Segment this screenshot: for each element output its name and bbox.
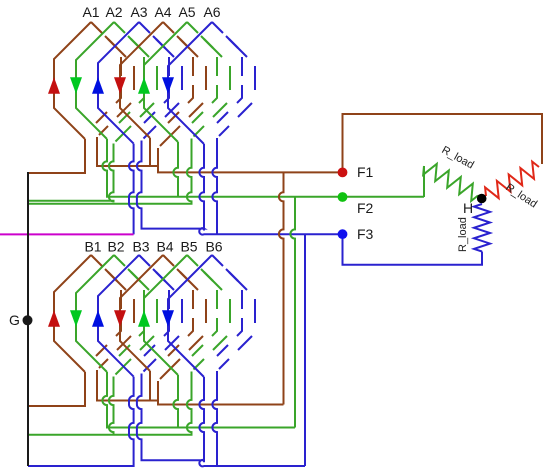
coil B2 front side (solid) — [76, 255, 114, 372]
current arrow A2 — [70, 77, 82, 94]
wire A3 lead + phase-3 bus to F3 (stepped) — [137, 141, 343, 235]
coil A6 back side (dashed) — [219, 39, 255, 136]
wire B6 lead to blue bus — [199, 377, 204, 462]
svg-text:F3: F3 — [357, 226, 374, 242]
wire B4 lead join red bus — [157, 381, 159, 401]
svg-text:R_load: R_load — [440, 144, 476, 171]
wire riser F2 net down — [290, 197, 295, 428]
coil A3 back side (dashed) — [144, 39, 183, 139]
resistor R_load red — [485, 162, 539, 199]
coil B2 second-turn back arc (dashed) — [119, 269, 144, 356]
coil B3 second-turn back arc (dashed) — [144, 269, 169, 356]
svg-text:A4: A4 — [154, 4, 171, 20]
wire B3 lead 2 + blue bus to riser (stepped) — [137, 374, 305, 467]
coil A2 back side (dashed) — [116, 39, 158, 142]
wire B5 lead to neutral return — [28, 372, 192, 435]
svg-text:F2: F2 — [357, 200, 374, 216]
current arrow B5 — [138, 310, 150, 327]
wire B2 lead join neutral return — [109, 377, 114, 435]
coil B1 back side (dashed) — [99, 272, 134, 368]
svg-text:A5: A5 — [178, 4, 195, 20]
coil A5 second-turn back arc (dashed) — [192, 36, 217, 123]
svg-text:H: H — [463, 200, 473, 216]
wire B2 lead + green bus to riser — [102, 372, 295, 428]
wire riser F1 net down — [279, 172, 284, 404]
coil A2 front side (solid) — [76, 22, 114, 139]
coil B4 peak-right solid stub — [163, 255, 174, 266]
current arrow A6 — [162, 77, 174, 94]
resistor R_load blue — [474, 204, 490, 252]
svg-text:B2: B2 — [107, 239, 124, 255]
wire green resistor to H node — [478, 196, 482, 199]
coil A2 second-turn back arc (dashed) — [119, 36, 144, 123]
svg-text:B6: B6 — [205, 239, 222, 255]
current arrow B1 — [48, 310, 60, 327]
current arrow B3 — [92, 310, 104, 327]
node G dot — [23, 315, 33, 325]
svg-text:B1: B1 — [84, 239, 101, 255]
wire A5 lead to neutral return — [28, 139, 192, 204]
coil B1 second-turn back arc (dashed) — [96, 269, 121, 356]
coil A5 peak-right solid stub — [187, 22, 198, 33]
coil A1 second-turn back arc (dashed) — [96, 36, 121, 123]
coil B6 second-turn back arc (dashed) — [217, 269, 242, 356]
current arrow B2 — [70, 310, 82, 327]
current arrow A4 — [114, 77, 126, 94]
svg-text:A6: A6 — [203, 4, 220, 20]
coil A6 second-turn back arc (dashed) — [217, 36, 242, 123]
coil B2 back side (dashed) — [116, 272, 158, 375]
svg-text:F1: F1 — [357, 164, 374, 180]
wire A2 lead + phase-2 bus to F2 — [102, 139, 424, 197]
coil B5 peak-right solid stub — [187, 255, 198, 266]
wire A1 lead + phase-1 bus to F1 (stepped) — [97, 137, 343, 172]
coil B3 front side (solid) — [98, 255, 139, 377]
svg-text:G: G — [9, 312, 20, 328]
coil B3 back side (dashed) — [144, 272, 183, 372]
coil A6 front side (solid) — [168, 22, 212, 144]
node F1 dot — [338, 168, 348, 178]
coil B1 front side (solid) — [54, 255, 91, 372]
wire B5 lead join green bus — [173, 375, 178, 428]
node F3 dot — [338, 229, 348, 239]
coil A3 front side (solid) — [98, 22, 139, 144]
wire B1 lead to neutral link — [28, 372, 85, 406]
svg-text:R_load: R_load — [457, 217, 469, 252]
coil B5 second-turn back arc (dashed) — [192, 269, 217, 356]
resistor R_load green — [423, 164, 478, 201]
coil A4 back side (dashed) — [160, 39, 206, 146]
svg-text:A2: A2 — [105, 4, 122, 20]
coil A5 front side (solid) — [144, 22, 187, 142]
coil B2 peak-right solid stub — [114, 255, 125, 266]
wire B4 lead join jumper — [149, 371, 151, 401]
current arrow B4 — [114, 310, 126, 327]
coil B4 front side (solid) — [120, 255, 163, 371]
wire F1 to load loop — [343, 114, 543, 172]
coil A4 peak-right solid stub — [163, 22, 174, 33]
coil A3 second-turn back arc (dashed) — [144, 36, 169, 123]
wire B1 lead + red bus to riser (stepped) — [97, 370, 284, 405]
svg-text:B5: B5 — [180, 239, 197, 255]
coil B4 back side (dashed) — [160, 272, 206, 379]
coil A1 peak-right solid stub — [91, 22, 102, 33]
coil A1 front side (solid) — [54, 22, 91, 139]
coil A6 peak-right solid stub — [212, 22, 223, 33]
wire A6 lead 2 join F3 bus — [212, 138, 217, 234]
coil B6 peak-right solid stub — [212, 255, 223, 266]
wire A1 lead to neutral link — [28, 139, 85, 173]
wire A3 lead to magenta link — [129, 144, 134, 235]
node F2 dot — [338, 192, 348, 202]
coil A1 back side (dashed) — [99, 39, 134, 135]
svg-text:B4: B4 — [156, 239, 173, 255]
coil A2 peak-right solid stub — [114, 22, 125, 33]
wire blue resistor bottom to F3 — [343, 239, 483, 265]
current arrow A3 — [92, 77, 104, 94]
wire B6 lead 2 to blue bus — [212, 371, 217, 466]
coil B4 second-turn back arc (dashed) — [168, 269, 193, 356]
wire A4 lead join jumper — [149, 138, 151, 166]
coil A3 peak-right solid stub — [139, 22, 150, 33]
coil A5 back side (dashed) — [194, 39, 231, 137]
svg-text:A1: A1 — [82, 4, 99, 20]
current arrow B6 — [162, 310, 174, 327]
svg-text:A3: A3 — [130, 4, 147, 20]
node H dot — [477, 194, 487, 204]
wire magenta neutral stub — [0, 233, 134, 235]
wire A5 lead join F2 bus — [173, 142, 178, 197]
current arrow A5 — [138, 77, 150, 94]
wire F2 riser to resistor — [423, 166, 425, 197]
coil A4 second-turn back arc (dashed) — [168, 36, 193, 123]
coil B5 front side (solid) — [144, 255, 187, 375]
coil B6 back side (dashed) — [219, 272, 255, 369]
coil B1 peak-right solid stub — [91, 255, 102, 266]
coil A4 front side (solid) — [120, 22, 163, 138]
wire A4 lead join F1 bus — [157, 148, 159, 166]
wire B3 lead to neutral link — [28, 377, 134, 466]
wire riser F3 net down — [304, 234, 306, 466]
wire A6 lead join F3 bus — [199, 144, 204, 231]
coil B3 peak-right solid stub — [139, 255, 150, 266]
coil B5 back side (dashed) — [194, 272, 231, 370]
wire neutral (black) — [27, 172, 29, 466]
svg-text:B3: B3 — [132, 239, 149, 255]
wire A2 lead to neutral return — [28, 144, 114, 202]
coil B6 front side (solid) — [168, 255, 212, 377]
current arrow A1 — [48, 77, 60, 94]
